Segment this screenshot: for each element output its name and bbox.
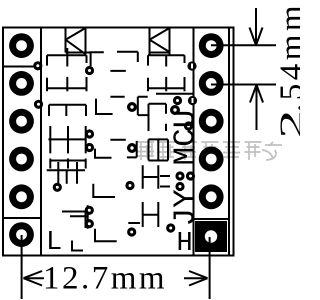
svg-text:JY: JY [169, 189, 204, 227]
svg-text:12.7mm: 12.7mm [43, 261, 167, 297]
svg-text:2: 2 [273, 110, 300, 139]
svg-text:.54mm: .54mm [274, 2, 300, 112]
svg-text:H: H [177, 229, 193, 259]
svg-text:MCU: MCU [169, 110, 204, 166]
svg-text:L: L [46, 228, 62, 258]
